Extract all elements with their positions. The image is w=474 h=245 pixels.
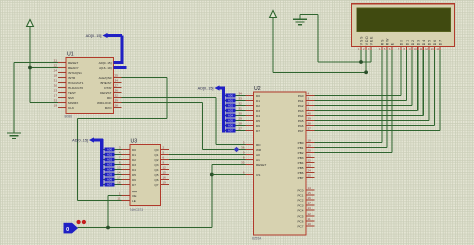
svg-text:D4: D4 — [256, 114, 260, 118]
svg-text:15: 15 — [308, 191, 312, 195]
svg-text:D3: D3 — [416, 39, 420, 45]
svg-text:17: 17 — [308, 201, 312, 205]
svg-text:24: 24 — [54, 69, 58, 73]
svg-text:19: 19 — [54, 104, 58, 108]
svg-text:PA7: PA7 — [298, 129, 304, 133]
svg-text:31: 31 — [239, 107, 243, 111]
svg-text:D7: D7 — [256, 129, 260, 133]
svg-text:PB5: PB5 — [298, 166, 304, 170]
svg-text:23: 23 — [308, 164, 312, 168]
svg-text:32: 32 — [239, 102, 243, 106]
svg-text:27: 27 — [239, 127, 243, 131]
svg-text:D6: D6 — [132, 178, 136, 182]
svg-text:D3: D3 — [256, 109, 260, 113]
svg-text:PC5: PC5 — [297, 214, 303, 218]
svg-text:PB6: PB6 — [298, 171, 304, 175]
svg-text:OE: OE — [132, 194, 136, 198]
svg-text:Q0: Q0 — [154, 148, 158, 152]
svg-text:D2: D2 — [411, 39, 415, 45]
svg-text:22: 22 — [54, 64, 58, 68]
svg-text:D2: D2 — [132, 158, 136, 162]
svg-text:0: 0 — [66, 227, 69, 233]
svg-text:19: 19 — [163, 181, 167, 185]
svg-text:AD1: AD1 — [228, 99, 234, 103]
svg-text:AD[0..15]: AD[0..15] — [72, 139, 88, 143]
svg-text:D6: D6 — [256, 124, 260, 128]
svg-text:38: 38 — [308, 122, 312, 126]
svg-text:11: 11 — [308, 217, 311, 221]
svg-text:74HC373: 74HC373 — [130, 208, 144, 212]
svg-text:AD2: AD2 — [107, 158, 113, 162]
svg-text:Q3: Q3 — [154, 163, 158, 167]
svg-text:PC0: PC0 — [297, 188, 303, 192]
svg-text:12: 12 — [308, 212, 312, 216]
svg-text:A[16..19]: A[16..19] — [99, 66, 112, 70]
svg-text:33: 33 — [54, 99, 58, 103]
svg-text:AD4: AD4 — [107, 168, 113, 172]
svg-text:PC3: PC3 — [297, 203, 303, 207]
svg-text:RD: RD — [256, 143, 261, 147]
svg-text:AD4: AD4 — [228, 114, 234, 118]
svg-text:BHE/S7: BHE/S7 — [100, 81, 111, 85]
svg-text:D3: D3 — [132, 163, 136, 167]
svg-text:D4: D4 — [422, 39, 426, 45]
svg-text:8086: 8086 — [65, 114, 73, 118]
svg-text:24: 24 — [308, 169, 312, 173]
svg-text:PB0: PB0 — [298, 141, 304, 145]
svg-text:Q7: Q7 — [154, 183, 158, 187]
svg-text:18: 18 — [308, 139, 312, 143]
svg-text:D5: D5 — [132, 173, 136, 177]
svg-text:28: 28 — [115, 104, 119, 108]
svg-text:PB3: PB3 — [298, 156, 304, 160]
svg-text:D0: D0 — [400, 39, 404, 45]
svg-text:D1: D1 — [256, 99, 260, 103]
svg-text:D7: D7 — [132, 183, 136, 187]
svg-text:26: 26 — [115, 89, 119, 93]
svg-text:14: 14 — [308, 186, 312, 190]
svg-text:29: 29 — [115, 99, 119, 103]
svg-text:Q2: Q2 — [154, 158, 158, 162]
svg-text:HLDA/GT0: HLDA/GT0 — [68, 86, 83, 90]
svg-text:31: 31 — [54, 79, 58, 83]
svg-text:13: 13 — [308, 206, 312, 210]
svg-text:CS: CS — [256, 173, 260, 177]
svg-text:AD5: AD5 — [228, 119, 234, 123]
svg-text:MN/MX: MN/MX — [68, 101, 78, 105]
svg-text:PB2: PB2 — [298, 151, 304, 155]
svg-text:PC6: PC6 — [297, 219, 303, 223]
svg-text:18: 18 — [54, 74, 58, 78]
svg-text:WR: WR — [256, 148, 262, 152]
svg-text:AD[0..15]: AD[0..15] — [99, 61, 112, 65]
svg-text:23: 23 — [54, 89, 58, 93]
svg-text:PB7: PB7 — [298, 176, 304, 180]
svg-text:M/IO: M/IO — [105, 106, 112, 110]
svg-text:20: 20 — [308, 149, 312, 153]
svg-text:D7: D7 — [439, 39, 443, 45]
svg-text:PA4: PA4 — [298, 114, 304, 118]
svg-text:D5: D5 — [256, 119, 260, 123]
svg-text:PA0: PA0 — [298, 94, 304, 98]
svg-text:17: 17 — [54, 94, 58, 98]
svg-text:LE: LE — [132, 199, 136, 203]
svg-text:Q4: Q4 — [154, 168, 158, 172]
svg-text:AD[0..15]: AD[0..15] — [86, 34, 102, 38]
svg-text:TEST: TEST — [68, 91, 76, 95]
svg-text:AD2: AD2 — [228, 104, 234, 108]
svg-text:RS: RS — [381, 39, 385, 46]
svg-text:D2: D2 — [256, 104, 260, 108]
svg-text:12: 12 — [163, 166, 167, 170]
svg-text:8255A: 8255A — [252, 237, 262, 241]
svg-text:VDD: VDD — [365, 35, 369, 45]
svg-text:AD1: AD1 — [107, 153, 113, 157]
svg-text:29: 29 — [239, 117, 243, 121]
svg-text:D0: D0 — [256, 94, 260, 98]
svg-text:AD7: AD7 — [228, 129, 234, 133]
svg-text:PA1: PA1 — [298, 99, 304, 103]
svg-text:16: 16 — [163, 176, 167, 180]
svg-text:30: 30 — [239, 112, 243, 116]
svg-text:U3: U3 — [131, 139, 138, 145]
svg-text:PC4: PC4 — [297, 208, 303, 212]
svg-text:PB4: PB4 — [298, 161, 304, 165]
svg-text:AD5: AD5 — [107, 173, 113, 177]
svg-text:RESET: RESET — [256, 163, 266, 167]
svg-text:36: 36 — [241, 146, 245, 150]
svg-text:D1: D1 — [405, 39, 409, 45]
svg-text:Q1: Q1 — [154, 153, 158, 157]
svg-text:RD: RD — [107, 96, 112, 100]
svg-text:NMI: NMI — [68, 96, 74, 100]
svg-text:PB1: PB1 — [298, 146, 304, 150]
svg-text:25: 25 — [115, 74, 119, 78]
svg-text:Q6: Q6 — [154, 178, 158, 182]
svg-text:INTR: INTR — [68, 76, 76, 80]
svg-text:15: 15 — [163, 171, 167, 175]
svg-text:AD3: AD3 — [107, 163, 113, 167]
svg-text:27: 27 — [115, 84, 119, 88]
svg-text:33: 33 — [239, 97, 243, 101]
svg-text:16: 16 — [308, 196, 312, 200]
svg-text:30: 30 — [54, 84, 58, 88]
svg-text:11: 11 — [117, 197, 120, 201]
svg-text:DEN/ST: DEN/ST — [100, 91, 111, 95]
svg-text:U2: U2 — [254, 86, 261, 92]
svg-text:HOLD/GT1: HOLD/GT1 — [68, 81, 84, 85]
svg-text:PA3: PA3 — [298, 109, 304, 113]
svg-text:D5: D5 — [428, 39, 432, 45]
svg-text:10: 10 — [308, 222, 312, 226]
svg-text:PA5: PA5 — [298, 119, 304, 123]
svg-text:AD0: AD0 — [107, 148, 113, 152]
svg-text:READY: READY — [68, 66, 79, 70]
svg-text:CLK: CLK — [68, 106, 75, 110]
svg-text:DT/R: DT/R — [104, 86, 112, 90]
svg-text:RW: RW — [386, 38, 390, 45]
svg-text:PC1: PC1 — [297, 193, 303, 197]
svg-text:AD[0..15]: AD[0..15] — [198, 87, 214, 91]
svg-text:19: 19 — [308, 144, 312, 148]
svg-text:28: 28 — [239, 122, 243, 126]
svg-text:37: 37 — [308, 127, 312, 131]
svg-text:RESET: RESET — [68, 61, 78, 65]
svg-text:25: 25 — [308, 174, 312, 178]
svg-text:35: 35 — [241, 161, 245, 165]
svg-text:39: 39 — [308, 117, 312, 121]
svg-text:VSS: VSS — [360, 36, 364, 46]
svg-text:AD6: AD6 — [228, 124, 234, 128]
svg-text:AD6: AD6 — [107, 178, 113, 182]
svg-text:D0: D0 — [132, 148, 136, 152]
svg-text:WR/LOCK: WR/LOCK — [97, 101, 112, 105]
svg-text:21: 21 — [54, 59, 58, 63]
svg-text:D4: D4 — [132, 168, 136, 172]
svg-text:A0: A0 — [256, 153, 260, 157]
svg-text:40: 40 — [308, 112, 312, 116]
svg-text:E: E — [391, 42, 395, 45]
svg-text:21: 21 — [308, 154, 312, 158]
svg-text:VEE: VEE — [370, 36, 374, 46]
svg-text:D1: D1 — [132, 153, 136, 157]
svg-text:PC7: PC7 — [297, 224, 303, 228]
svg-text:PC2: PC2 — [297, 198, 303, 202]
svg-text:INTA/QS1: INTA/QS1 — [68, 71, 82, 75]
svg-text:D6: D6 — [433, 39, 437, 45]
svg-text:32: 32 — [115, 94, 119, 98]
svg-text:AD3: AD3 — [228, 109, 234, 113]
svg-text:U1: U1 — [67, 52, 74, 58]
svg-text:22: 22 — [308, 159, 312, 163]
svg-text:34: 34 — [115, 79, 119, 83]
svg-text:PA2: PA2 — [298, 104, 304, 108]
svg-text:AD0: AD0 — [228, 94, 234, 98]
svg-text:ALE/QS0: ALE/QS0 — [99, 76, 112, 80]
svg-text:34: 34 — [239, 92, 243, 96]
svg-text:A1: A1 — [256, 158, 260, 162]
svg-text:Q5: Q5 — [154, 173, 158, 177]
svg-text:PA6: PA6 — [298, 124, 304, 128]
svg-text:AD7: AD7 — [107, 183, 113, 187]
